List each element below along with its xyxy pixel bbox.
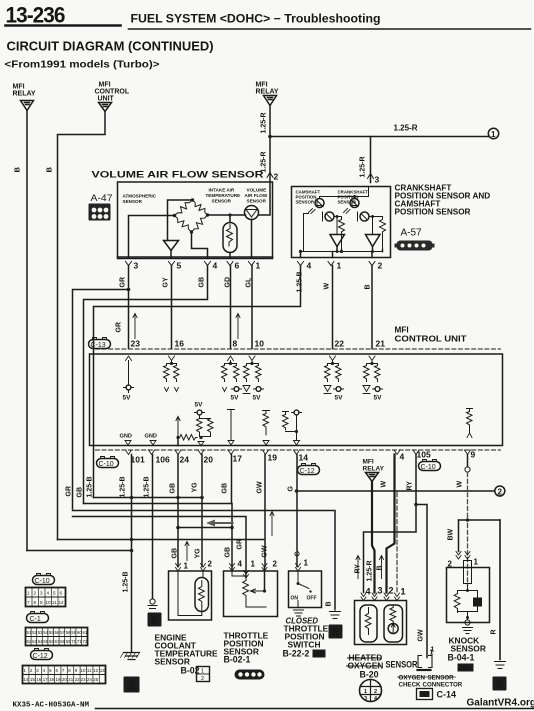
thermistor stem top: [229, 215, 231, 223]
wire GB bus to TPS: [84, 504, 233, 571]
svg-text:GB: GB: [225, 547, 232, 558]
svg-text:GND: GND: [145, 434, 157, 440]
connector stack C-10 oval: [33, 574, 55, 586]
svg-text:1.25-B: 1.25-B: [123, 571, 130, 592]
amplifier triangle in VAF: [164, 241, 179, 251]
wire GR from VAF 3 down to MFI 23: [128, 266, 130, 349]
section title: [5, 40, 214, 71]
label B rotated: [326, 601, 333, 606]
wire GR bus to TPS: [73, 511, 336, 609]
svg-text:8: 8: [496, 679, 502, 691]
svg-text:W: W: [457, 481, 464, 488]
connector pin grid 1: [26, 588, 66, 607]
svg-text:1.25-R: 1.25-R: [261, 112, 268, 133]
svg-text:G: G: [295, 551, 302, 557]
connector stack C-12 oval: [31, 649, 53, 661]
svg-text:C-10: C-10: [421, 464, 436, 471]
terminal arrows crank box: [298, 262, 376, 266]
svg-text:15: 15: [30, 677, 35, 682]
wire B bus from control unit down left: [58, 539, 265, 541]
header rule: [129, 28, 531, 30]
wire crank sensor internal 5V rail: [320, 187, 369, 199]
ECT sensor box: [169, 571, 212, 620]
svg-text:GalantVR4.org: GalantVR4.org: [467, 698, 534, 709]
wire ground bus horizontal 1.25-B: [94, 497, 203, 499]
connector A-57 icon: [395, 241, 435, 251]
junction: [295, 489, 299, 493]
wire B from MFI relay down left side: [26, 111, 28, 551]
svg-text:RELAY: RELAY: [13, 91, 36, 98]
label 1.25-B on ground wire: [123, 571, 130, 592]
wire GD from VAF 6 to MFI 8: [230, 266, 232, 349]
svg-text:KX35-AC-H053GA-NM: KX35-AC-H053GA-NM: [13, 702, 90, 710]
resistor crank: [378, 217, 386, 249]
wire VAF terminal2 down to circle: [259, 182, 271, 215]
label ENGINE COOLANT TEMPERATURE SENSOR: [155, 633, 219, 676]
label 1.25-R rotated: [360, 156, 367, 177]
svg-text:1.25-B: 1.25-B: [87, 476, 94, 497]
thermistor capsule intake air temp: [223, 223, 237, 253]
svg-text:22: 22: [75, 677, 80, 682]
label GR rotated near MFI 23: [116, 322, 123, 333]
svg-text:1: 1: [27, 591, 30, 596]
svg-text:GD: GD: [225, 277, 232, 288]
heavy wire W from terminal 4 down: [387, 455, 395, 593]
wire knock top rail: [459, 519, 501, 521]
bridge junction dots: [173, 214, 176, 217]
svg-text:19: 19: [56, 677, 61, 682]
connector pin grid 3: [23, 666, 106, 684]
svg-text:<From1991 models (Turbo)>: <From1991 models (Turbo)>: [5, 59, 160, 71]
relay MFI RELAY (top middle) label: [256, 82, 279, 96]
svg-text:SENSOR: SENSOR: [212, 199, 232, 204]
svg-text:MFI: MFI: [363, 459, 374, 466]
svg-text:2: 2: [208, 560, 213, 569]
opto pair 1 phototransistor cam: [325, 212, 334, 221]
label 1.25-R horizontal: [394, 124, 418, 133]
wire 106 1.25-B down to ECT ground: [152, 455, 154, 599]
svg-text:1: 1: [474, 558, 479, 567]
connector C-10 oval bottom row right: [419, 460, 441, 472]
svg-text:3: 3: [375, 175, 380, 185]
node label B rotated: [13, 167, 22, 173]
svg-text:SENSOR: SENSOR: [386, 660, 418, 670]
svg-text:3: 3: [378, 586, 383, 596]
svg-text:1: 1: [491, 130, 496, 139]
svg-text:SENSOR: SENSOR: [247, 199, 267, 204]
throttle position sensor box: [224, 571, 278, 617]
svg-text:C-10: C-10: [99, 461, 114, 468]
svg-text:C-10: C-10: [35, 578, 50, 585]
svg-text:B: B: [45, 167, 54, 173]
svg-text:12: 12: [93, 668, 98, 673]
wire GR bus left and down: [73, 290, 129, 510]
svg-text:GR: GR: [237, 539, 244, 550]
svg-text:CONTROL: CONTROL: [95, 89, 130, 96]
svg-text:8: 8: [332, 627, 338, 639]
svg-text:ON: ON: [291, 596, 299, 602]
watermark GalantVR4.org: [467, 698, 534, 709]
svg-text:23: 23: [81, 677, 86, 682]
wire 17 GB down: [231, 455, 233, 504]
ground marker box 8 (ECT): [148, 613, 162, 627]
svg-text:1.25-B: 1.25-B: [144, 476, 151, 497]
svg-text:GY: GY: [163, 277, 170, 287]
wire BW down to knock 2: [458, 520, 460, 552]
MFI control unit connector row C-13: [89, 338, 111, 350]
wire bridge top to amp input: [168, 200, 193, 241]
svg-text:9: 9: [40, 600, 43, 605]
svg-text:3: 3: [128, 679, 135, 693]
labels above HO2S rotated: [355, 560, 384, 581]
knock sensor box: [447, 568, 490, 623]
terminal numbers bottom row MFI: [131, 450, 476, 465]
svg-text:R: R: [491, 629, 498, 634]
wire 9 shielded down: [467, 455, 469, 467]
relay symbol triangle top-left: [21, 101, 34, 111]
TPS wiper arrow: [264, 567, 266, 592]
svg-text:4: 4: [366, 587, 371, 597]
svg-text:8: 8: [34, 600, 37, 605]
svg-text:18: 18: [49, 677, 54, 682]
header text FUEL SYSTEM: [131, 14, 381, 26]
svg-text:GB: GB: [170, 483, 177, 494]
wire R down right side: [499, 520, 501, 660]
ground dashes for R wire: [495, 662, 506, 669]
internal 24/20: 5V and resistors: [195, 402, 204, 409]
svg-text:1: 1: [184, 562, 189, 571]
relay MFI RELAY (top left) label: [13, 84, 36, 98]
svg-text:1.25-R: 1.25-R: [360, 156, 367, 177]
svg-text:17: 17: [233, 454, 243, 464]
label VOLUME AIR FLOW SENSOR (inner): [245, 188, 268, 204]
wire labels above ECT rotated: [172, 548, 202, 559]
svg-text:4: 4: [307, 261, 312, 271]
wire 1.25-R horizontal to off-page connector 1: [270, 136, 489, 138]
terminal arrows at VAF box bottom: [126, 262, 255, 266]
svg-text:20: 20: [204, 455, 214, 465]
svg-text:C-14: C-14: [437, 690, 457, 700]
dashed connector line bottom of MFI unit: [96, 449, 501, 451]
connector A-57 label: [401, 228, 423, 239]
svg-text:TEMPERATURE: TEMPERATURE: [206, 193, 241, 198]
wire GW to check connector: [416, 505, 427, 658]
svg-text:MFI: MFI: [13, 84, 25, 91]
wire GL from VAF 1 to MFI 10: [251, 266, 253, 349]
svg-text:22: 22: [335, 339, 345, 349]
thermistor stem bottom to terminal 6: [229, 253, 231, 258]
svg-text:SENSOR: SENSOR: [123, 199, 143, 204]
svg-text:B-20: B-20: [360, 670, 379, 680]
svg-text:OFF: OFF: [307, 596, 317, 602]
svg-text:5V: 5V: [253, 395, 262, 402]
svg-text:GR: GR: [120, 277, 127, 288]
shield wire into knock sensor dashed: [467, 524, 469, 586]
svg-text:MFI: MFI: [395, 326, 409, 335]
svg-text:2: 2: [201, 676, 204, 682]
svg-text:12: 12: [59, 600, 65, 605]
svg-text:24: 24: [87, 677, 92, 682]
header underline thick: [6, 24, 121, 27]
wire amp output to terminal 5: [170, 251, 172, 258]
wire B from relay to ground wire: [27, 550, 132, 552]
svg-text:GR: GR: [116, 322, 123, 333]
svg-text:9: 9: [471, 450, 476, 460]
volume air flow sensor box: [92, 170, 264, 181]
svg-text:17: 17: [43, 677, 48, 682]
svg-text:5V: 5V: [195, 402, 204, 409]
svg-text:B: B: [13, 167, 22, 173]
connector C-10 oval bottom row left: [97, 457, 119, 469]
svg-text:11: 11: [87, 668, 92, 673]
wire 5V rail right of bridge: [208, 214, 246, 216]
svg-text:YG: YG: [192, 482, 199, 493]
wire 19 GW down to TPS 2: [264, 455, 266, 567]
HO2S sensor capsule: [384, 605, 403, 642]
svg-text:2: 2: [274, 172, 279, 182]
svg-text:25: 25: [93, 677, 98, 682]
svg-text:VOLUME: VOLUME: [247, 188, 267, 193]
label GR rotated: [120, 277, 127, 288]
svg-text:10: 10: [46, 600, 52, 605]
ECT left ground wire: [150, 599, 155, 604]
svg-text:14: 14: [24, 677, 29, 682]
terminal numbers top row MFI: [131, 339, 386, 349]
svg-text:5V: 5V: [123, 395, 132, 402]
label 1.25-R rotated upper: [261, 112, 268, 133]
svg-text:BW: BW: [448, 528, 455, 540]
svg-text:8: 8: [233, 339, 238, 349]
connector icon ECT 2pin: [197, 667, 210, 683]
relay symbol triangle lower: [366, 473, 379, 482]
svg-text:GB: GB: [77, 487, 84, 498]
svg-text:INTAKE AIR: INTAKE AIR: [209, 188, 235, 193]
internal 21: resistors diode 5V: [367, 361, 378, 364]
label GB on left bus: [77, 487, 84, 498]
internal 16: two pull resistors: [167, 361, 177, 364]
marker icon knock: [458, 664, 474, 672]
svg-text:1.25-R: 1.25-R: [394, 124, 418, 133]
HO2S heater capsule: [360, 605, 377, 642]
TPS labels above: [225, 539, 302, 558]
connector A-47 label: [91, 193, 113, 204]
TPS internal resistor: [232, 571, 246, 576]
dashed shield wire near HO2S: [396, 493, 398, 593]
svg-text:1: 1: [431, 647, 435, 654]
svg-text:3: 3: [134, 261, 139, 271]
svg-text:61: 61: [83, 630, 88, 635]
internal wires to crank box bottom rail: [337, 247, 383, 252]
svg-text:23: 23: [131, 339, 141, 349]
svg-text:A-47: A-47: [91, 193, 113, 204]
footer rule: [96, 708, 534, 710]
svg-text:3: 3: [364, 696, 367, 702]
svg-text:POSITION SENSOR: POSITION SENSOR: [395, 208, 471, 217]
junction GR to left bus: [127, 288, 131, 292]
svg-text:AIR FLOW: AIR FLOW: [245, 193, 268, 198]
dashed connector line top of MFI unit: [96, 348, 501, 350]
label ATMOSPHERIC SENSOR: [123, 194, 157, 205]
wire 1.25-R branch down to crank sensor terminal 3: [370, 137, 372, 183]
terminal numbers VAF: [134, 261, 261, 271]
connector A-47 icon: [89, 204, 111, 221]
svg-text:RELAY: RELAY: [363, 466, 385, 473]
svg-text:B: B: [365, 284, 372, 289]
heated oxygen sensor box: [355, 601, 407, 645]
svg-text:B: B: [326, 601, 333, 606]
svg-text:5: 5: [177, 261, 182, 271]
terminal exit arrows bottom row: [126, 450, 132, 455]
thermistor zigzag: [227, 225, 233, 247]
svg-text:14: 14: [299, 453, 309, 463]
svg-text:OXYGEN: OXYGEN: [399, 675, 426, 682]
svg-text:ATMOSPHERIC: ATMOSPHERIC: [123, 194, 157, 199]
wire GB link 24 to 17: [178, 527, 232, 529]
svg-text:1.25-B: 1.25-B: [297, 271, 304, 292]
svg-text:1: 1: [304, 559, 309, 568]
svg-text:6: 6: [60, 591, 63, 596]
junction: [268, 135, 272, 139]
svg-text:21: 21: [376, 339, 386, 349]
svg-text:5V: 5V: [374, 395, 383, 402]
svg-text:W: W: [381, 481, 388, 488]
junction dots at resistor pairs: [170, 362, 173, 365]
connector pin grid 2: [26, 628, 88, 646]
internal 8: resistors and 5V: [225, 361, 237, 364]
connector icon C-14: [417, 689, 433, 700]
svg-text:5V: 5V: [335, 395, 344, 402]
ground marker box 3: [124, 677, 140, 693]
internal GND arrows bottom row: [120, 434, 157, 440]
ECT thermistor capsule: [202, 571, 204, 578]
internal 14: 5V circle resistor: [294, 410, 299, 415]
connector icon TPS oval 4pin: [235, 670, 265, 680]
svg-text:21: 21: [68, 677, 73, 682]
svg-text:6: 6: [235, 261, 240, 271]
internal 19 resistor: [263, 411, 270, 435]
svg-text:GB: GB: [222, 483, 229, 494]
wire TPS GR drop from bus: [73, 517, 247, 577]
wire labels below MFI unit rotated: [87, 476, 464, 497]
wire bridge bottom to terminal 4: [192, 232, 208, 258]
svg-text:2: 2: [374, 689, 377, 695]
svg-text:CONNECTOR: CONNECTOR: [423, 682, 463, 689]
label CLOSED THROTTLE POSITION SWITCH: [283, 617, 329, 659]
amp triangle crank: [366, 235, 381, 247]
off-page connector circle 1: [488, 128, 498, 138]
svg-text:B-04-1: B-04-1: [448, 653, 475, 663]
svg-text:C-12: C-12: [33, 653, 48, 660]
svg-text:MFI: MFI: [256, 82, 268, 89]
internal 9 pull resistor far right: [467, 409, 473, 433]
internal 23: wire to 5V: [128, 361, 130, 385]
node label B rotated: [45, 167, 54, 173]
svg-text:VOLUME AIR FLOW SENSOR: VOLUME AIR FLOW SENSOR: [92, 170, 264, 181]
svg-text:16: 16: [175, 339, 185, 349]
wire GB from VAF 4 left and down bus: [84, 266, 208, 504]
svg-text:106: 106: [156, 455, 170, 465]
svg-text:A-57: A-57: [401, 228, 423, 239]
svg-text:1.25-R: 1.25-R: [367, 560, 374, 581]
wire GB into ECT 1: [177, 498, 179, 567]
svg-text:FUEL SYSTEM <DOHC> − Troublesh: FUEL SYSTEM <DOHC> − Troubleshooting: [131, 14, 381, 26]
svg-text:2: 2: [34, 591, 37, 596]
wire crank sensor left return rail: [303, 214, 305, 252]
bracket connector mark: [418, 656, 432, 668]
air flow sensor circle with triangle: [245, 206, 259, 220]
label MFI RELAY lower: [363, 459, 385, 473]
svg-text:C-1: C-1: [30, 616, 41, 623]
junction GB wires: [176, 526, 180, 530]
signal arrows at HO2S: [356, 556, 360, 579]
svg-text:MFI: MFI: [99, 82, 111, 89]
terminal entry arrows top row: [126, 356, 132, 361]
wire 1.25-R from relay down to VAF terminal 2: [269, 106, 271, 182]
svg-text:101: 101: [131, 455, 145, 465]
opto pair 1 LED cam: [315, 199, 324, 208]
ground for B wire with marker 8: [330, 609, 341, 619]
svg-text:1: 1: [337, 261, 342, 271]
svg-text:RY: RY: [407, 481, 414, 491]
wire 101 ground 1.25-B long vertical: [131, 455, 133, 653]
signal arrow up near GW: [270, 512, 274, 536]
pin 2 at VAF sensor top: [267, 173, 273, 178]
TPS terminal chevrons: [230, 564, 235, 572]
chassis ground symbol: [124, 653, 140, 660]
svg-text:13-236: 13-236: [6, 3, 66, 28]
wire 20 YG down to ECT 2: [201, 455, 203, 567]
page header title 13-236: [6, 3, 66, 28]
svg-text:3: 3: [40, 591, 43, 596]
wire from control unit down, left, down: [58, 112, 106, 540]
svg-text:C-12: C-12: [300, 468, 315, 475]
label THROTTLE POSITION SENSOR B-02-1: [224, 631, 269, 665]
signal arrow up near ECT: [185, 542, 189, 561]
svg-text:4: 4: [238, 560, 243, 569]
wire circle bottom to terminal 1: [251, 220, 253, 258]
svg-text:1: 1: [256, 261, 261, 271]
svg-text:GW: GW: [262, 545, 269, 557]
svg-text:16: 16: [36, 677, 41, 682]
svg-text:1: 1: [251, 560, 256, 569]
svg-text:G: G: [288, 486, 295, 492]
footer part code: [13, 702, 90, 710]
svg-text:10: 10: [255, 339, 265, 349]
internal 10: resistors diode 5V: [247, 361, 259, 364]
label OXYGEN SENSOR CHECK CONNECTOR: [399, 675, 463, 689]
wire RY from 105 down and left to HO2S: [364, 455, 417, 593]
crank/cam sensor box: [292, 187, 391, 258]
label GR on left bus: [66, 486, 73, 497]
svg-text:RELAY: RELAY: [256, 89, 279, 96]
svg-text:19: 19: [268, 453, 278, 463]
svg-text:B: B: [377, 565, 384, 570]
svg-text:2: 2: [273, 560, 278, 569]
wire B from crank 2 to MFI 21: [371, 266, 373, 349]
svg-text:10: 10: [81, 668, 86, 673]
svg-text:20: 20: [62, 677, 67, 682]
marker icon MB: [313, 650, 326, 658]
wire rail to terminal 4: [300, 251, 302, 258]
opto pair 2 LED crank: [350, 199, 359, 208]
off-page connector circle 2: [495, 486, 505, 496]
svg-text:GW: GW: [418, 629, 425, 641]
amp triangle cam: [330, 235, 345, 247]
svg-text:2: 2: [498, 488, 503, 497]
svg-text:1: 1: [364, 689, 367, 695]
op unit MFI CONTROL UNIT (top) label: [95, 82, 130, 103]
svg-text:MB: MB: [314, 652, 324, 658]
